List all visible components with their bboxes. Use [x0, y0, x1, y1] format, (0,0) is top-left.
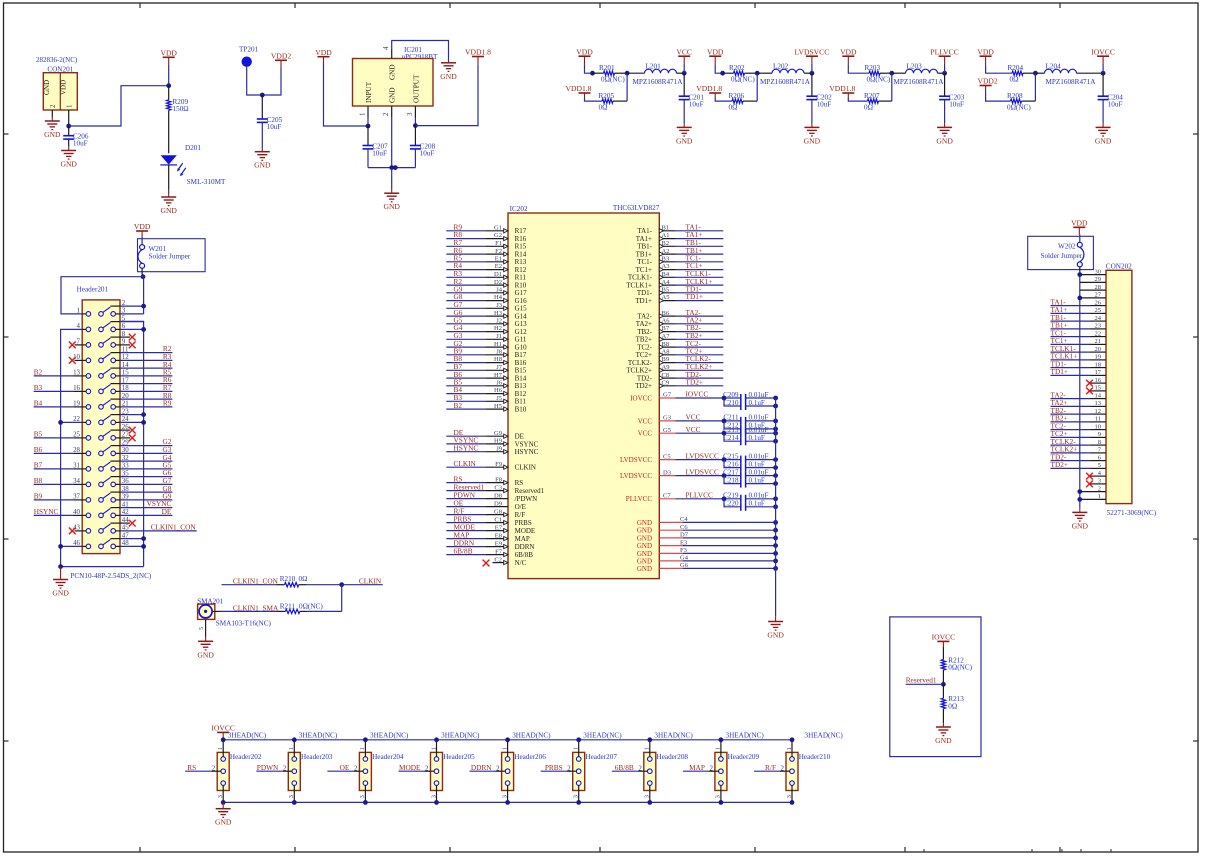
svg-text:J7: J7: [496, 364, 503, 371]
wire IOVCC rail: [223, 739, 792, 741]
svg-text:D9: D9: [494, 500, 502, 507]
jumper W202 Solder Jumper: [1028, 236, 1094, 269]
svg-text:VDD: VDD: [134, 222, 151, 231]
node junction bus GND E3: [773, 543, 778, 548]
wire/pin H5 net B2 (IC202 B10): [446, 408, 485, 410]
node junction bus C217: [773, 473, 778, 478]
svg-text:R17: R17: [515, 227, 527, 235]
wire Header202 pin1 stub: [222, 740, 224, 757]
svg-text:B2: B2: [662, 240, 670, 247]
ground (C205): [255, 151, 270, 153]
svg-text:Header209: Header209: [728, 753, 760, 761]
svg-text:B5: B5: [662, 287, 670, 294]
node junction C217/C218: [722, 473, 727, 478]
capacitor C208 10uF: [414, 126, 416, 146]
svg-text:TD2+: TD2+: [686, 378, 704, 387]
wire pin 42 net DE: [120, 514, 172, 516]
pin 43 no-connect X: [75, 530, 83, 532]
svg-text:R9: R9: [163, 399, 172, 408]
svg-text:B7: B7: [34, 461, 43, 470]
svg-text:G14: G14: [515, 312, 528, 320]
wire decoupling ground bus: [775, 398, 777, 616]
svg-text:VDD: VDD: [707, 47, 724, 56]
svg-text:3HEAD(NC): 3HEAD(NC): [228, 731, 267, 739]
wire pin 33 net G5: [120, 468, 172, 470]
wire/pin G5 power net VCC (IC202): [659, 432, 675, 434]
ground (SMA201): [198, 640, 213, 642]
wire R207 up to junction: [891, 73, 893, 101]
wire CON202 pin 17 net TD1+: [1051, 374, 1091, 376]
wire/pin F7 net 6B/8B (IC202 6B/8B): [446, 554, 485, 556]
ground (header rail): [216, 808, 231, 810]
svg-text:IOVCC: IOVCC: [686, 390, 709, 399]
wire Header202 pin2 net RS: [185, 770, 211, 772]
svg-text:R12: R12: [515, 266, 527, 274]
svg-text:D201: D201: [185, 144, 201, 152]
svg-text:H7: H7: [494, 372, 503, 379]
wire OUTPUT to VDD1.8: [415, 64, 478, 125]
Header201 row 10 pins 28/29/30: [86, 451, 91, 456]
svg-text:E8: E8: [495, 532, 502, 539]
wire Header207 pin3 stub: [578, 785, 580, 802]
capacitor C219 0.01uF: [740, 495, 742, 503]
Header201 row 14 pins 40/41/42: [86, 513, 91, 518]
wire/pin F9 net CLKIN (IC202 CLKIN): [446, 466, 485, 468]
svg-text:26: 26: [1095, 299, 1102, 306]
wire/pin J8 net B9 (IC202 B17): [446, 354, 485, 356]
capacitor C218 0.1uF: [724, 476, 741, 484]
wire pin 14 net R4: [120, 367, 172, 369]
svg-text:G1: G1: [494, 225, 502, 232]
svg-text:Header208: Header208: [657, 753, 689, 761]
pin 8 no-connect X: [120, 336, 130, 338]
svg-text:R204: R204: [1008, 64, 1024, 72]
inductor L202 MPZ1608R471A: [757, 72, 772, 74]
svg-text:23: 23: [1095, 323, 1102, 330]
svg-text:J9: J9: [496, 445, 502, 452]
node junction LVDSVCC / C202: [810, 71, 815, 76]
node junction C213/C214: [722, 431, 727, 436]
svg-text:10uF: 10uF: [949, 101, 964, 109]
svg-text:10uF: 10uF: [1108, 101, 1123, 109]
wire Header202 pin3 stub: [222, 785, 224, 802]
Header201 row 6 pins 16/17/18: [86, 389, 91, 394]
wire Header203 pin3 stub: [293, 785, 295, 802]
svg-text:2: 2: [50, 104, 57, 108]
svg-text:D3: D3: [663, 469, 671, 476]
wire CON202 pin 13 net TA2+: [1051, 405, 1091, 407]
wire pin 36 net G7: [120, 483, 172, 485]
svg-text:0Ω(NC): 0Ω(NC): [867, 76, 891, 84]
svg-text:C217: C217: [723, 468, 739, 476]
svg-text:D1: D1: [494, 271, 502, 278]
wire/pin J9 net HSYNC (IC202 HSYNC): [446, 451, 485, 453]
wire pin 6 to right bus: [120, 328, 144, 330]
wire/pin J6 net B5 (IC202 B13): [446, 385, 485, 387]
svg-text:10uF: 10uF: [267, 123, 282, 131]
node junction right bus pin 48: [141, 544, 146, 549]
wire Header205 pin3 stub: [436, 785, 438, 802]
node junction W201 / header bus: [141, 274, 146, 279]
svg-text:GND: GND: [637, 565, 652, 573]
svg-text:2: 2: [354, 765, 358, 772]
wire W202 to CON202 bus: [1079, 267, 1081, 275]
wire CON202 pin 5 net TD2+: [1051, 467, 1091, 469]
wire Header203 pin1 stub: [293, 740, 295, 757]
wire CON202 pin 8 net TCLK2-: [1051, 444, 1091, 446]
wire CON202 pin 11 net TB2+: [1051, 421, 1091, 423]
svg-text:TD1+: TD1+: [686, 292, 704, 301]
svg-text:0.01uF: 0.01uF: [749, 391, 769, 399]
node junction GND rail Header210: [790, 800, 795, 805]
node junction bus C210: [773, 404, 778, 409]
svg-text:HSYNC: HSYNC: [515, 448, 539, 456]
wire/pin B4 net TCLK1- (IC202 right): [659, 276, 675, 278]
svg-text:2: 2: [425, 765, 429, 772]
wire/pin C3 net Reserved1 (IC202 Reserved1): [446, 490, 485, 492]
svg-text:E2: E2: [495, 263, 502, 270]
svg-text:B2: B2: [34, 368, 43, 377]
wire/pin E2 net R4 (IC202 R12): [446, 269, 485, 271]
wire/pin E8 net MAP (IC202 MAP): [446, 538, 485, 540]
wire Header209 pin2 net MAP: [683, 770, 709, 772]
wire to PLLVCC: [944, 64, 946, 73]
node junction IOVCC rail Header209: [719, 737, 724, 742]
wire rail to ground: [391, 168, 393, 190]
svg-text:PLLVCC: PLLVCC: [626, 495, 653, 503]
wire Header210 pin1 stub: [791, 740, 793, 757]
wire/pin C7 power net PLLVCC (IC202): [659, 498, 675, 500]
node junction IOVCC rail Header206: [505, 737, 510, 742]
svg-text:SMA103-T16(NC): SMA103-T16(NC): [216, 619, 272, 627]
svg-text:3HEAD(NC): 3HEAD(NC): [370, 731, 409, 739]
svg-text:J3: J3: [496, 302, 502, 309]
Header201 row 2 pins 4/5/6: [86, 327, 91, 332]
wire/pin J3 net G7 (IC202 G15): [446, 307, 485, 309]
svg-text:VDD: VDD: [60, 80, 68, 95]
wire pin 19 net B4: [34, 406, 74, 408]
svg-text:27: 27: [1095, 292, 1102, 299]
node junction IOVCC rail Header210: [790, 737, 795, 742]
wire R208 up to junction: [1034, 73, 1036, 101]
svg-text:Solder Jumper: Solder Jumper: [1040, 252, 1082, 260]
wire/pin H4 net G8 (IC202 G16): [446, 300, 485, 302]
svg-text:0Ω: 0Ω: [1010, 76, 1019, 84]
svg-text:VDD: VDD: [576, 47, 593, 56]
wire net Reserved1: [906, 683, 944, 685]
svg-text:D7: D7: [680, 532, 689, 539]
wire CON202 pin 10 net TC2-: [1051, 429, 1091, 431]
svg-text:R14: R14: [515, 250, 527, 258]
svg-text:LVDSVCC: LVDSVCC: [686, 451, 720, 460]
wire CON202 pin 27 (bus): [1080, 297, 1106, 299]
svg-text:CON202: CON202: [1106, 262, 1132, 270]
svg-text:A3: A3: [662, 263, 670, 270]
wire IC201 pin1 stub: [367, 106, 369, 118]
wire CON202 pin 20 net TCLK1-: [1051, 351, 1091, 353]
svg-text:E9: E9: [495, 540, 502, 547]
svg-text:LVDSVCC: LVDSVCC: [795, 47, 830, 56]
svg-text:B9: B9: [34, 492, 43, 501]
svg-text:CLKIN1_CON: CLKIN1_CON: [233, 577, 279, 586]
ground (IC201 pin 4): [441, 62, 456, 64]
inductor L204 MPZ1608R471A: [1035, 72, 1044, 74]
wire/pin A7 net TB2+ (IC202 right): [659, 338, 675, 340]
wire pin 18 net R7: [120, 390, 172, 392]
svg-text:R211: R211: [280, 602, 296, 610]
svg-text:B5: B5: [34, 430, 43, 439]
svg-text:14: 14: [1095, 392, 1102, 399]
ground (CON202): [1072, 511, 1087, 513]
wire pin 16 net B3: [34, 390, 74, 392]
svg-text:GND: GND: [215, 818, 232, 827]
svg-text:13: 13: [1095, 400, 1102, 407]
svg-text:21: 21: [1095, 338, 1102, 345]
wire/pin A6 net TA2+ (IC202 right): [659, 323, 675, 325]
wire/pin E7 net MODE (IC202 MODE): [446, 530, 485, 532]
svg-text:GND: GND: [389, 87, 397, 103]
svg-text:15: 15: [1095, 385, 1102, 392]
svg-text:GND: GND: [936, 136, 953, 145]
wire/pin H3 net G6 (IC202 G14): [446, 315, 485, 317]
pin 9 no-connect X: [120, 344, 130, 346]
svg-text:16: 16: [1095, 377, 1102, 384]
svg-text:VDD: VDD: [840, 47, 857, 56]
svg-text:E7: E7: [495, 524, 503, 531]
svg-text:PLLVCC: PLLVCC: [930, 47, 958, 56]
wire/pin C4 GND (IC202): [659, 521, 683, 523]
wire CON202 pin 6 net TD2-: [1051, 460, 1091, 462]
wire CON202 pin 1 (bus): [1080, 498, 1106, 500]
svg-text:VCC: VCC: [686, 425, 701, 434]
svg-text:3HEAD(NC): 3HEAD(NC): [441, 731, 480, 739]
svg-text:C211: C211: [723, 414, 739, 422]
wire CON202 pin 30 (bus): [1080, 274, 1106, 276]
svg-text:C210: C210: [723, 399, 739, 407]
svg-text:IC202: IC202: [510, 205, 528, 213]
wire Header208 pin3 stub: [649, 785, 651, 802]
svg-text:19: 19: [1095, 354, 1102, 361]
ground (CON201 pin 2): [45, 120, 60, 122]
node junction L201 left: [625, 71, 630, 76]
inductor L203 MPZ1608R471A: [892, 72, 906, 74]
wire IC201 pin2 (GND) stub: [391, 106, 393, 118]
svg-text:OUTPUT: OUTPUT: [412, 74, 420, 103]
svg-text:C5: C5: [663, 453, 671, 460]
svg-text:B6: B6: [34, 445, 43, 454]
svg-text:10uF: 10uF: [817, 101, 832, 109]
svg-text:F8: F8: [495, 476, 502, 483]
svg-text:G7: G7: [663, 392, 672, 399]
node junction IC201 pin1 / C207: [366, 124, 371, 129]
wire CON202 pin 19 net TCLK1+: [1051, 359, 1091, 361]
svg-text:LVDSVCC: LVDSVCC: [620, 472, 652, 480]
svg-text:A8: A8: [662, 349, 670, 356]
svg-text:TC1+: TC1+: [636, 266, 652, 274]
node junction GND rail Header204: [363, 800, 368, 805]
resistor R208 0Ω(NC): [1011, 99, 1022, 103]
svg-text:THC63LVD827: THC63LVD827: [613, 204, 660, 212]
wire CON202 pin 29 (bus elbow): [1080, 281, 1106, 283]
wire Header205 pin2 net MODE: [399, 770, 425, 772]
wire pin 46 to left bus: [61, 545, 83, 547]
svg-text:Header205: Header205: [443, 753, 475, 761]
svg-text:Header204: Header204: [372, 753, 404, 761]
wire/pin A8 net TC2+ (IC202 right): [659, 354, 675, 356]
pin 15 no-connect X: [1091, 390, 1107, 392]
svg-text:L202: L202: [773, 63, 789, 71]
svg-text:0Ω: 0Ω: [599, 103, 608, 111]
wire CON202 pin 2 (bus): [1080, 491, 1106, 493]
svg-text:C216: C216: [723, 460, 739, 468]
svg-text:B1: B1: [662, 225, 670, 232]
wire VDD to R202: [714, 56, 716, 64]
wire/pin A3 net TC1+ (IC202 right): [659, 269, 675, 271]
wire/pin D8 net PDWN (IC202 /PDWN): [446, 498, 485, 500]
svg-text:GND: GND: [383, 202, 400, 211]
svg-text:G12: G12: [515, 328, 528, 336]
node junction R202 left: [720, 71, 725, 76]
node junction bus C211: [773, 419, 778, 424]
svg-text:C1: C1: [494, 516, 502, 523]
wire/pin E9 net DDRN (IC202 DDRN): [446, 546, 485, 548]
svg-text:IOVCC: IOVCC: [630, 394, 652, 402]
svg-text:A4: A4: [662, 279, 671, 286]
svg-text:E1: E1: [495, 256, 502, 263]
resistor R210 0ohm: [285, 583, 299, 587]
wire pin 29 net G2: [120, 445, 172, 447]
wire/pin A5 net TD1+ (IC202 right): [659, 300, 675, 302]
svg-text:B4: B4: [34, 399, 43, 408]
svg-text:20: 20: [1095, 346, 1102, 353]
node junction GND rail Header208: [647, 800, 652, 805]
wire Header207 pin2 net PRBS: [541, 770, 567, 772]
capacitor C201 10uF: [683, 73, 685, 96]
svg-text:R10: R10: [515, 281, 527, 289]
node junction bus GND F3: [773, 551, 778, 556]
svg-text:C209: C209: [723, 391, 739, 399]
wire Header209 pin3 stub: [720, 785, 722, 802]
svg-text:A6: A6: [662, 318, 671, 325]
svg-text:A5: A5: [662, 294, 670, 301]
wire pin 47 to right bus: [120, 538, 144, 540]
node junction GND rail Header205: [434, 800, 439, 805]
svg-text:0.01uF: 0.01uF: [749, 426, 769, 434]
ground (R213): [936, 726, 951, 728]
node junction PLLVCC / C203: [942, 71, 947, 76]
svg-text:PRBS: PRBS: [515, 519, 532, 527]
svg-text:0Ω(NC): 0Ω(NC): [299, 602, 323, 610]
capacitor C203 10uF: [944, 73, 946, 96]
wire W201 to header bus: [141, 268, 143, 276]
svg-text:C218: C218: [723, 476, 739, 484]
svg-text:B3: B3: [662, 256, 670, 263]
Header201 row 15 pins 43/44/45: [86, 529, 91, 534]
svg-text:MPZ1608R471A: MPZ1608R471A: [760, 78, 811, 86]
wire VDD2 to R208: [985, 86, 987, 91]
node junction Reserved1: [941, 682, 946, 687]
svg-text:R208: R208: [1007, 92, 1023, 100]
option box (Reserved1): [890, 617, 981, 757]
wire Header207 pin1 stub: [578, 740, 580, 757]
svg-text:2: 2: [283, 765, 287, 772]
svg-text:1: 1: [1098, 493, 1101, 500]
wire Header210 pin2 net R/F: [754, 770, 780, 772]
wire VDD net from CON201 to R209 column: [69, 86, 169, 126]
svg-text:H5: H5: [494, 403, 502, 410]
svg-text:DDRN: DDRN: [471, 763, 492, 772]
svg-text:0.1uF: 0.1uF: [749, 476, 765, 484]
svg-text:3HEAD(NC): 3HEAD(NC): [299, 731, 338, 739]
svg-text:W202: W202: [1058, 243, 1076, 251]
svg-text:LVDSVCC: LVDSVCC: [620, 456, 652, 464]
wire/pin H2 net G4 (IC202 G12): [446, 331, 485, 333]
svg-text:GND: GND: [440, 72, 457, 81]
svg-text:B12: B12: [515, 390, 527, 398]
wire/pin H9 net VSYNC (IC202 VSYNC): [446, 443, 485, 445]
wire/pin G6 GND (IC202): [659, 567, 683, 569]
svg-text:F7: F7: [495, 548, 503, 555]
ground (D201): [161, 196, 176, 198]
svg-text:Header201: Header201: [77, 286, 109, 294]
svg-text:Solder Jumper: Solder Jumper: [149, 252, 191, 260]
wire CON202 pin 23 net TB1+: [1051, 328, 1091, 330]
svg-text:25: 25: [1095, 307, 1102, 314]
resistor R207 0Ω: [868, 99, 879, 103]
wire/pin G4 GND (IC202): [659, 560, 683, 562]
svg-text:6B/8B: 6B/8B: [454, 546, 473, 555]
svg-text:L203: L203: [907, 63, 923, 71]
svg-text:B6: B6: [662, 310, 670, 317]
wire CON202 pin 26 net TA1-: [1051, 305, 1091, 307]
svg-text:GND: GND: [197, 650, 214, 659]
svg-text:CLKIN: CLKIN: [515, 464, 536, 472]
svg-text:CLKIN1_SMA: CLKIN1_SMA: [233, 603, 279, 612]
svg-text:LVDSVCC: LVDSVCC: [686, 467, 720, 476]
svg-text:H4: H4: [494, 294, 503, 301]
wire/pin F8 net RS (IC202 RS): [446, 482, 485, 484]
svg-text:6B/8B: 6B/8B: [615, 763, 634, 772]
svg-text:H9: H9: [494, 438, 502, 445]
wire pin 22 to left bus: [61, 421, 83, 423]
wire R205 up to junction: [626, 73, 628, 101]
svg-text:B16: B16: [515, 359, 527, 367]
wire SMA201 to R211: [212, 610, 220, 612]
svg-text:C9: C9: [662, 380, 670, 387]
svg-text:0Ω: 0Ω: [948, 702, 957, 710]
wire CON202 pin 21 net TC1+: [1051, 343, 1091, 345]
svg-text:Reserved1: Reserved1: [906, 676, 937, 685]
svg-text:0.01uF: 0.01uF: [749, 468, 769, 476]
wire Header201 right bus (VDD): [143, 277, 145, 314]
wire pin 17 net R6: [120, 383, 172, 385]
pin 4 no-connect X: [1091, 475, 1107, 477]
wire Header208 pin2 net 6B/8B: [612, 770, 638, 772]
svg-text:C6: C6: [680, 524, 688, 531]
svg-text:C215: C215: [723, 452, 739, 460]
capacitor C210 0.1uF: [724, 398, 741, 406]
wire/pin D2 net R2 (IC202 R10): [446, 284, 485, 286]
svg-text:J5: J5: [496, 395, 502, 402]
svg-text:CLKIN: CLKIN: [359, 577, 382, 586]
capacitor C209 0.01uF: [740, 394, 742, 402]
wire/pin B5 net TD1- (IC202 right): [659, 292, 675, 294]
wire/pin D7 GND (IC202): [659, 537, 683, 539]
svg-text:0.1uF: 0.1uF: [749, 460, 765, 468]
svg-text:VDD1.8: VDD1.8: [465, 48, 491, 57]
wire/pin C6 GND (IC202): [659, 529, 683, 531]
resistor R204 0Ω: [1012, 71, 1023, 75]
